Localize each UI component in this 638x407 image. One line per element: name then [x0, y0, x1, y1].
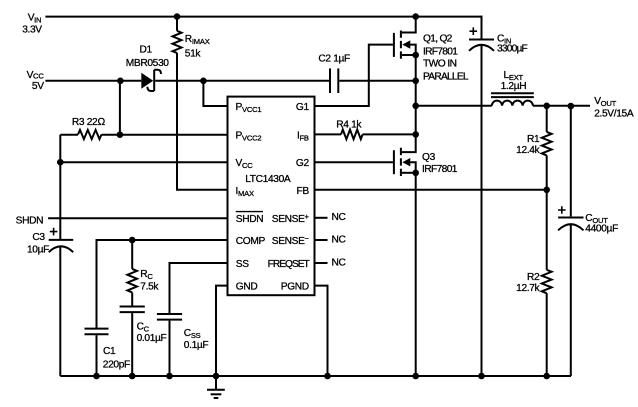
svg-text:Q1, Q2: Q1, Q2	[423, 33, 453, 44]
svg-text:Q3: Q3	[422, 152, 436, 163]
svg-text:NC: NC	[332, 234, 346, 245]
svg-text:51k: 51k	[185, 48, 202, 59]
svg-text:COMP: COMP	[236, 236, 266, 247]
svg-text:R1: R1	[527, 134, 540, 145]
svg-text:2.5V/15A: 2.5V/15A	[594, 109, 634, 120]
svg-text:SHDN: SHDN	[236, 214, 263, 225]
svg-text:SENSE−: SENSE−	[272, 234, 310, 247]
svg-text:7.5k: 7.5k	[140, 282, 159, 293]
svg-text:SENSE+: SENSE+	[272, 212, 310, 225]
svg-text:G2: G2	[296, 158, 310, 169]
svg-text:GND: GND	[236, 282, 258, 293]
svg-text:3.3V: 3.3V	[22, 24, 42, 35]
svg-text:SS: SS	[236, 259, 249, 270]
svg-text:TWO IN: TWO IN	[423, 59, 457, 70]
svg-text:R4 1k: R4 1k	[336, 120, 362, 131]
svg-text:NC: NC	[332, 212, 346, 223]
svg-text:3300µF: 3300µF	[497, 43, 528, 54]
svg-text:PARALLEL: PARALLEL	[423, 71, 469, 82]
svg-text:R2: R2	[527, 272, 540, 283]
svg-text:C2 1µF: C2 1µF	[318, 53, 350, 64]
svg-text:PGND: PGND	[281, 282, 309, 293]
svg-text:IRF7801: IRF7801	[423, 47, 458, 58]
svg-text:NC: NC	[332, 257, 346, 268]
svg-text:G1: G1	[296, 102, 310, 113]
svg-text:LTC1430A: LTC1430A	[245, 174, 291, 185]
svg-text:220pF: 220pF	[103, 360, 130, 371]
svg-text:10µF: 10µF	[27, 244, 49, 255]
svg-text:IRF7801: IRF7801	[422, 164, 458, 175]
svg-text:FB: FB	[296, 186, 309, 197]
svg-text:MBR0530: MBR0530	[126, 58, 170, 69]
svg-text:R3 22Ω: R3 22Ω	[72, 117, 105, 128]
svg-text:D1: D1	[140, 45, 153, 56]
svg-text:1.2µH: 1.2µH	[501, 81, 527, 92]
svg-text:5V: 5V	[32, 81, 44, 92]
svg-text:C3: C3	[32, 232, 45, 243]
svg-text:SHDN: SHDN	[16, 215, 43, 226]
svg-text:C1: C1	[103, 346, 116, 357]
svg-text:0.01µF: 0.01µF	[137, 333, 167, 344]
svg-text:VCC: VCC	[27, 70, 45, 81]
svg-text:12.7k: 12.7k	[516, 283, 540, 294]
svg-text:4400µF: 4400µF	[585, 224, 618, 235]
svg-text:FREQSET: FREQSET	[268, 259, 310, 270]
svg-text:12.4k: 12.4k	[516, 145, 540, 156]
svg-text:0.1µF: 0.1µF	[184, 340, 209, 351]
